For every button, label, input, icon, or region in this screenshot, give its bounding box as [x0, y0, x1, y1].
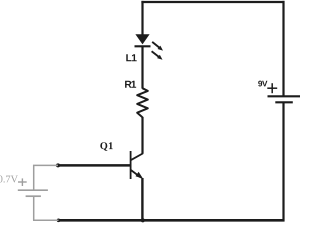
label Q1 — [100, 142, 112, 150]
label 0.7V — [0, 176, 18, 183]
battery 9V negative plate — [275, 101, 293, 103]
LED L1 — [135, 34, 164, 60]
label + (9V battery) — [267, 83, 277, 93]
junction node: 0.7V battery / bottom rail — [57, 219, 61, 223]
junction node: base / 0.7V battery — [56, 163, 60, 167]
wire: right rail upper — [282, 1, 284, 96]
battery 0.7V positive plate — [18, 189, 48, 191]
wire: emitter to bottom rail — [141, 178, 143, 221]
wire: LED anode to top rail — [141, 1, 143, 35]
label + (0.7V battery) — [18, 178, 27, 186]
wire: LED cathode to resistor — [141, 46, 143, 88]
label R1 — [125, 81, 136, 88]
wire: resistor to collector — [141, 117, 143, 154]
wire: bottom rail — [59, 219, 285, 222]
resistor R1 — [137, 88, 148, 117]
wire: top rail — [141, 1, 284, 3]
junction node: emitter / bottom rail — [141, 218, 145, 222]
label L1 — [126, 54, 136, 61]
battery 0.7V negative plate — [26, 195, 41, 197]
wire: right rail lower — [282, 102, 284, 221]
battery 9V positive plate — [268, 95, 301, 97]
wire: 0.7V battery top lead — [33, 165, 58, 191]
transistor Q1 — [131, 151, 144, 179]
wire: 0.7V battery bottom lead — [33, 196, 59, 220]
label 9V — [258, 81, 267, 87]
wire: base — [58, 164, 130, 167]
